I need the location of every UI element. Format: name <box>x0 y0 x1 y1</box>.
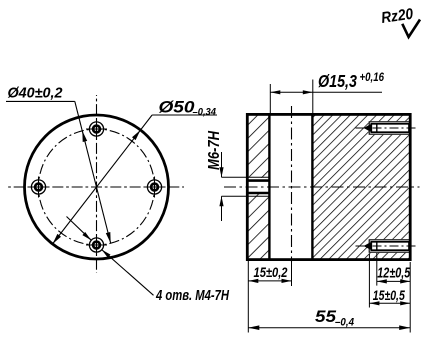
bore right edge <box>311 114 313 259</box>
arrowhead Ø40 upper <box>82 131 87 142</box>
svg-text:+0,16: +0,16 <box>360 70 385 84</box>
15±0,2 dim line <box>248 280 291 282</box>
M4 section hole bottom thread outline <box>369 240 409 252</box>
M4 section hole top drill cone <box>364 124 372 132</box>
vertical center line <box>96 95 98 273</box>
Ø40 leader shelf <box>6 100 75 102</box>
15±0,5 arrow left <box>369 301 379 305</box>
M4 hole bottom center cross <box>86 235 107 256</box>
M4 hole bottom white <box>369 239 410 253</box>
bore vertical axis <box>291 106 293 262</box>
55 arrow left <box>248 325 259 330</box>
M4 hole left thread circle <box>31 180 45 194</box>
svg-text:15±0,5: 15±0,5 <box>373 287 405 303</box>
dimension line Ø40 diagonal <box>75 101 111 243</box>
horizontal center line <box>8 186 184 188</box>
M4 section hole top thread end line <box>376 124 378 132</box>
M4 hole top center cross <box>86 119 107 140</box>
svg-text:Rz20: Rz20 <box>380 6 414 27</box>
leader stub upper-left of bottom hole <box>67 217 92 241</box>
hatching right block <box>312 114 410 259</box>
M4 section hole top bore outline <box>371 124 409 132</box>
15±0,2 arrow right <box>282 279 292 283</box>
15±0,2 arrow left <box>248 279 258 283</box>
svg-text:4 отв. М4-7Н: 4 отв. М4-7Н <box>155 287 230 304</box>
bore axis extension <box>291 262 293 286</box>
part horizontal axis <box>224 186 420 188</box>
Ø15,3 ext line right <box>312 80 314 114</box>
leader line 4 holes note <box>102 250 154 296</box>
12±0,5 arrow right <box>400 279 410 283</box>
svg-text:–0,4: –0,4 <box>335 317 354 329</box>
svg-text:15±0,2: 15±0,2 <box>254 264 288 280</box>
M6 dim stem lower <box>221 196 223 221</box>
55 arrow right <box>399 325 410 330</box>
M6 hole top wall <box>246 179 271 182</box>
M4 section hole bottom thread end line <box>376 242 378 250</box>
M4 hole right thread circle <box>147 180 161 194</box>
arrowhead Ø50 upper <box>132 130 141 140</box>
M6 thread crest bottom (ext) <box>222 195 270 197</box>
Ø50 leader shelf <box>152 114 217 116</box>
M6 arrow down <box>219 167 223 177</box>
12±0,5 ext line left <box>376 253 378 286</box>
arrowhead 4 holes leader <box>102 250 111 258</box>
svg-text:55: 55 <box>315 307 337 326</box>
Ø15,3 arrow left <box>270 90 280 94</box>
15±0,5 ext line left <box>368 254 370 308</box>
hatching left wall <box>247 114 269 259</box>
svg-text:–0,34: –0,34 <box>193 106 217 118</box>
M6 hole white band <box>246 178 271 193</box>
M6 arrow up <box>219 196 223 206</box>
svg-text:М6-7Н: М6-7Н <box>206 130 223 170</box>
arrowhead Ø50 lower <box>53 234 62 244</box>
svg-text:Ø40±0,2: Ø40±0,2 <box>8 84 64 101</box>
M6 dim stem upper <box>221 152 223 177</box>
roughness check mark <box>402 20 420 38</box>
M4 hole left (minor dia) <box>35 184 42 191</box>
left view outer circle Ø50 <box>25 115 169 259</box>
ext line left face <box>247 261 249 333</box>
arrowhead leader stub <box>82 232 91 240</box>
M4 hole left center cross <box>28 177 49 198</box>
12±0,5 dim line <box>377 280 410 282</box>
55 dim line <box>248 327 410 329</box>
M4 hole bottom thread circle <box>89 238 103 252</box>
M4 section hole top axis <box>356 127 419 129</box>
Ø15,3 ext line left <box>269 84 271 114</box>
section outline rect <box>247 114 410 259</box>
M4 section hole top thread outline <box>369 122 409 134</box>
arrowhead Ø40 lower <box>106 232 111 243</box>
M4 hole top thread circle <box>89 122 103 136</box>
M4 hole right (minor dia) <box>151 184 158 191</box>
15±0,5 dim line <box>369 302 410 304</box>
M4 hole top white <box>369 121 410 135</box>
M4 section hole bottom axis <box>356 245 419 247</box>
Ø15,3 arrow right <box>303 90 313 94</box>
bore left edge <box>268 114 270 259</box>
svg-text:12±0,5: 12±0,5 <box>377 265 411 281</box>
M4 hole top (minor dia) <box>93 126 100 133</box>
M4 section hole bottom drill cone <box>364 242 372 250</box>
ext line right face <box>409 262 411 333</box>
svg-text:Ø15,3: Ø15,3 <box>318 71 357 91</box>
M6 hole bottom wall <box>246 192 271 195</box>
M6 thread crest top (ext) <box>222 176 270 178</box>
12±0,5 arrow left <box>377 279 387 283</box>
Ø15,3 dim line + shelf <box>270 91 382 93</box>
left view bolt circle Ø40 (dash-dot) <box>39 129 155 245</box>
svg-text:Ø50: Ø50 <box>159 98 196 117</box>
M4 hole right center cross <box>144 177 165 198</box>
dimension line Ø50 diagonal <box>53 115 153 244</box>
15±0,5 arrow right <box>400 301 410 305</box>
M4 section hole bottom bore outline <box>371 242 409 250</box>
M4 hole bottom (minor dia) <box>93 242 100 249</box>
